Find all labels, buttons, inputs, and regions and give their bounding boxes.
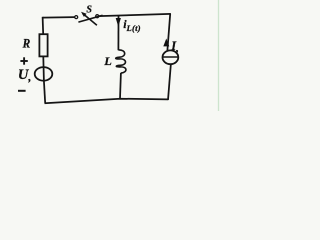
voltage source U1 circle [35,67,53,81]
wire bottom [45,99,168,104]
wire left vertical through source [42,56,45,81]
current source arrowhead [163,39,169,47]
switch S right contact [96,15,99,18]
wire top-left horizontal [43,16,75,19]
svg-text:S: S [86,5,92,16]
wire right vertical lower [168,65,171,100]
svg-text:L: L [103,54,112,68]
current source I1 bar [162,56,178,58]
inductor L coil [116,50,126,73]
svg-text:U,: U, [18,67,31,84]
current source I1 circle [163,50,179,64]
faint green scan line right edge [218,0,220,111]
switch S blade [78,15,102,22]
wire middle branch lower [119,73,122,99]
switch S motion arrowhead [81,12,87,17]
switch S left contact [75,16,78,19]
wire middle branch upper [117,15,119,50]
wire top-right horizontal [99,14,171,16]
plus sign [20,57,27,64]
resistor R1 box [39,34,47,56]
inductor current arrowhead iL [116,18,121,27]
wire left vertical lower [44,81,45,104]
switch S motion arrow line [83,13,97,25]
svg-text:R: R [22,37,31,51]
minus sign [18,90,26,92]
wire left vertical upper [42,17,45,35]
wire right vertical upper [167,14,170,50]
